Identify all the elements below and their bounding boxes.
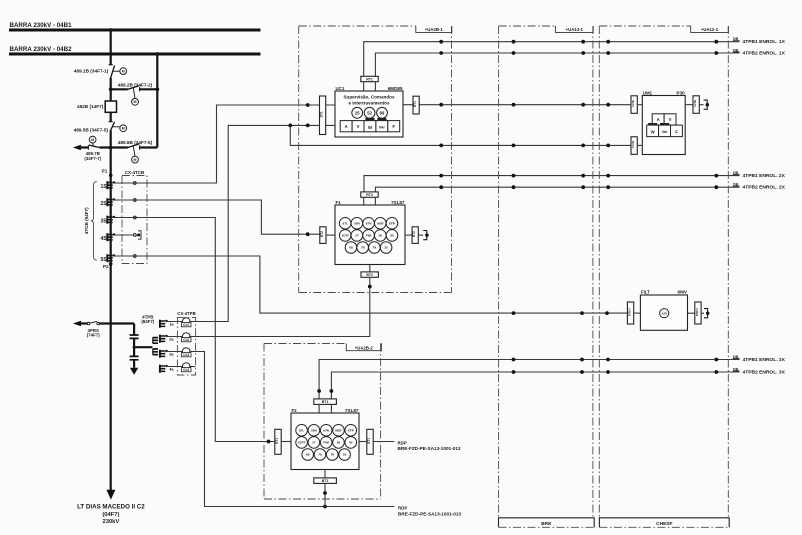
svg-text:+UA12-1: +UA12-1 [701, 27, 719, 32]
function 25 [352, 107, 363, 118]
wire voltage branch to UM1 [290, 125, 631, 145]
svg-text:(34F7-7): (34F7-7) [84, 156, 101, 161]
node bus1 tap [109, 28, 113, 32]
CT 2S [107, 198, 115, 206]
wire main feeder upper [110, 30, 112, 65]
capacitor C1 [130, 335, 139, 338]
breaker 452B (14F7) [105, 101, 116, 112]
fuse OJ4 [182, 363, 190, 371]
svg-text:7SL87: 7SL87 [391, 200, 405, 205]
svg-text:V: V [357, 124, 360, 129]
svg-text:CX-4TPB: CX-4TPB [177, 311, 195, 316]
wire [110, 130, 112, 175]
svg-text:BT2: BT2 [412, 231, 416, 237]
svg-text:M: M [134, 100, 137, 104]
svg-text:BRE-FZD-PE-SA13-1001-013: BRE-FZD-PE-SA13-1001-013 [398, 511, 461, 516]
busbar 04B1 [9, 29, 261, 32]
terminal 4S shorted spare [112, 234, 133, 236]
connector CV1B right [685, 104, 693, 106]
svg-text:2S: 2S [100, 201, 107, 207]
svg-text:85: 85 [390, 234, 394, 238]
svg-text:25: 25 [384, 246, 388, 250]
svg-text:BT1: BT1 [413, 101, 417, 107]
capacitor C2 [130, 356, 139, 359]
connector BT1 right [359, 441, 367, 443]
disconnector 489.6B (34F7-6) [139, 145, 141, 149]
svg-text:CX-4TCB: CX-4TCB [125, 170, 145, 175]
wire RT1 to ENROL 1X a [364, 42, 740, 77]
svg-text:BARRA 230kV - 04B2: BARRA 230kV - 04B2 [10, 46, 73, 53]
wire F2 top to ENROL 3X b [331, 372, 739, 399]
svg-text:P1: P1 [102, 169, 108, 174]
connector CV1B upper left [631, 96, 637, 114]
ground [130, 368, 138, 375]
termination UM1 right [704, 100, 709, 109]
svg-text:489.2B (34F7-2): 489.2B (34F7-2) [118, 83, 153, 88]
winding 2a [160, 335, 168, 343]
connector BT1 right [403, 104, 413, 106]
svg-text:CV1B: CV1B [631, 100, 635, 107]
connector BTFILT right [688, 312, 695, 314]
svg-text:3S: 3S [100, 218, 107, 224]
svg-text:+UA2B-2: +UA2B-2 [355, 345, 374, 350]
svg-text:FWI: FWI [366, 234, 372, 238]
svg-text:50N: 50N [354, 221, 360, 225]
terminal 1S [112, 182, 133, 184]
F2 functions row2 [296, 437, 308, 449]
disconnector 489.1B (34F7-1) [109, 64, 113, 66]
svg-text:SOTF: SOTF [341, 234, 349, 238]
svg-text:87L: 87L [299, 428, 304, 432]
svg-text:BTFILT: BTFILT [696, 308, 699, 317]
connector BT1 left [320, 96, 326, 135]
svg-text:50BF: 50BF [377, 221, 384, 225]
svg-text:BT1: BT1 [322, 479, 329, 483]
svg-text:68: 68 [306, 453, 310, 457]
CT 5S [107, 254, 115, 262]
wire branch 489.6B [111, 146, 158, 148]
wire RT1 to ENROL 1X b [375, 53, 739, 76]
svg-text:(74F7): (74F7) [87, 332, 100, 337]
svg-text:BT2: BT2 [320, 231, 324, 237]
disconnector 489.5B (34F7-5) [109, 121, 113, 123]
svg-text:UM1: UM1 [643, 90, 653, 95]
fuse OJ2 [182, 333, 190, 341]
svg-text:RT1: RT1 [366, 77, 373, 81]
CT 1S [107, 181, 115, 189]
svg-text:59: 59 [379, 234, 383, 238]
node bus2 tap [155, 52, 159, 56]
wire F2 bottom to RDP [324, 484, 326, 507]
wire [110, 112, 112, 121]
wire UC1 to UM1 [419, 104, 631, 106]
fuse OJ1 [182, 318, 190, 326]
svg-text:59: 59 [337, 441, 341, 445]
svg-text:6MD85: 6MD85 [388, 86, 403, 91]
meter A [652, 114, 664, 125]
cvt windings [153, 338, 158, 344]
svg-text:OJ3: OJ3 [183, 353, 189, 357]
svg-text:M: M [122, 127, 125, 131]
svg-text:52: 52 [367, 110, 372, 115]
svg-text:F: F [392, 124, 395, 129]
busbar 04B2 [9, 53, 261, 56]
svg-text:F2: F2 [292, 408, 298, 413]
svg-text:BRE-FZD-PE-SA13-1001-013: BRE-FZD-PE-SA13-1001-013 [398, 446, 461, 451]
svg-text:(04F7): (04F7) [102, 512, 119, 518]
CT 3S [107, 216, 115, 224]
disconnector 489.2B (34F7-2) [139, 87, 141, 91]
svg-text:78: 78 [318, 453, 322, 457]
svg-text:M: M [134, 158, 137, 162]
connector BT1 left [275, 429, 281, 454]
svg-text:VAr: VAr [662, 130, 669, 134]
svg-text:4TCB (94F7): 4TCB (94F7) [84, 207, 89, 234]
svg-text:CV1W: CV1W [631, 140, 635, 148]
connector BTFILT left [627, 302, 633, 324]
wire RT2 to ENROL 2X a [364, 176, 739, 192]
wire OJ3 to F2 bottom / RDP [189, 352, 394, 507]
meter F [671, 125, 683, 137]
svg-text:5S: 5S [100, 257, 107, 263]
termination FILT right [704, 309, 709, 318]
svg-text:Supervisão, Comandos: Supervisão, Comandos [343, 94, 394, 99]
svg-text:4S: 4S [100, 236, 107, 242]
winding 3a [160, 350, 168, 358]
svg-text:68: 68 [349, 246, 353, 250]
svg-text:1S: 1S [100, 184, 107, 190]
svg-text:4TPB2 ENROL. 2X: 4TPB2 ENROL. 2X [743, 185, 786, 191]
wire branch vertical right [156, 54, 158, 148]
svg-text:4TPB2 ENROL. 3X: 4TPB2 ENROL. 3X [743, 370, 786, 376]
svg-text:UC1: UC1 [336, 86, 345, 91]
svg-text:BT2: BT2 [366, 273, 373, 277]
node P1 [109, 174, 113, 178]
svg-text:A: A [657, 117, 660, 122]
F2 functions row3 [302, 449, 314, 461]
wire 1S to UC1 [112, 105, 319, 183]
svg-text:BARRA 230kV - 04B1: BARRA 230kV - 04B1 [10, 22, 73, 29]
transducer A/D [660, 309, 669, 318]
F2 functions row1 [296, 425, 308, 437]
svg-text:489.5B (34F7-5): 489.5B (34F7-5) [74, 128, 109, 133]
svg-text:BRE: BRE [541, 521, 552, 527]
CX-4TPB box [177, 317, 195, 375]
svg-text:A/D: A/D [662, 311, 668, 315]
svg-text:CHESF: CHESF [656, 521, 672, 527]
svg-text:BTFILT: BTFILT [629, 308, 632, 317]
svg-text:25: 25 [343, 453, 347, 457]
svg-text:V: V [669, 117, 672, 122]
brace 4TCB (94F7) [91, 182, 97, 261]
function 89 [377, 107, 388, 118]
svg-text:SOTF: SOTF [298, 441, 306, 445]
meter VAr [376, 121, 388, 132]
connector BT2 left [320, 227, 326, 244]
svg-text:F: F [675, 130, 678, 135]
function 52 [364, 107, 375, 118]
svg-text:RDP: RDP [398, 441, 407, 446]
svg-text:P2: P2 [103, 264, 109, 269]
svg-text:25: 25 [355, 110, 360, 115]
svg-text:489.1B (34F7-1): 489.1B (34F7-1) [74, 68, 109, 73]
svg-text:M: M [91, 138, 94, 142]
connector RT2 top [361, 192, 378, 197]
svg-text:50N: 50N [311, 428, 317, 432]
F1 functions row2 [339, 230, 351, 242]
svg-text:M: M [122, 70, 125, 74]
svg-text:230kV: 230kV [103, 519, 120, 525]
meter VAr [659, 125, 671, 137]
wire 5S to FILT [112, 256, 627, 313]
wire F2 top to ENROL 3X a [319, 360, 739, 399]
svg-text:LT DIAS MACEDO II C2: LT DIAS MACEDO II C2 [77, 503, 145, 510]
connector RT1 top [361, 76, 378, 81]
svg-text:F1: F1 [336, 200, 342, 205]
connector BT2 bottom [369, 265, 371, 272]
connector CV1W lower left [631, 137, 637, 155]
svg-text:87L: 87L [343, 221, 348, 225]
wire branch 489.2B [111, 88, 158, 90]
meter A [340, 121, 352, 132]
connector BT1 bottom [324, 470, 326, 478]
svg-text:79: 79 [331, 453, 335, 457]
svg-text:6MV: 6MV [678, 290, 688, 295]
svg-text:CV1B: CV1B [693, 100, 697, 107]
svg-text:FWI: FWI [323, 441, 329, 445]
svg-text:67N: 67N [366, 221, 372, 225]
svg-text:78: 78 [361, 246, 365, 250]
svg-text:FILT: FILT [641, 290, 650, 295]
connector BT2 right [405, 234, 412, 236]
svg-text:27: 27 [312, 441, 316, 445]
svg-text:(84F7): (84F7) [141, 319, 154, 324]
svg-text:4TPB1 ENROL. 3X: 4TPB1 ENROL. 3X [743, 357, 786, 363]
svg-text:BT1: BT1 [367, 438, 371, 444]
F1 functions row1 [339, 218, 351, 230]
wire OJ2 to F1 bottom [189, 278, 369, 337]
svg-text:e Intertravamentos: e Intertravamentos [348, 101, 390, 106]
svg-text:OJ4: OJ4 [183, 368, 189, 372]
terminal 5S [112, 255, 133, 257]
svg-text:P30: P30 [677, 90, 686, 95]
terminal 2S [112, 199, 133, 201]
svg-text:85: 85 [349, 441, 353, 445]
termination F1 right [423, 231, 428, 240]
meter V [664, 114, 676, 125]
fuse OJ3 [182, 348, 190, 356]
wire OJ4 stub [189, 366, 195, 368]
svg-text:489.6B (34F7-6): 489.6B (34F7-6) [118, 140, 153, 145]
svg-text:BT1: BT1 [275, 438, 279, 444]
svg-text:RDP: RDP [398, 506, 407, 511]
winding 1a [160, 320, 168, 328]
winding 4a [160, 365, 168, 373]
CT 4S [107, 233, 115, 241]
node cvt tap [133, 346, 136, 349]
F1 functions row3 [345, 242, 357, 254]
svg-text:EFP: EFP [389, 221, 395, 225]
svg-text:OJ2: OJ2 [183, 338, 189, 342]
wire main feeder lower [110, 264, 112, 490]
meter W [364, 121, 376, 132]
terminal 3S [112, 217, 133, 219]
svg-text:4TPB1 ENROL. 1X: 4TPB1 ENROL. 1X [743, 39, 786, 45]
svg-text:BT1: BT1 [322, 400, 329, 404]
meter F [388, 121, 400, 132]
line arrow LT DIAS MACEDO II C2 [106, 490, 115, 500]
svg-text:+UA13-1: +UA13-1 [566, 27, 584, 32]
meter V [352, 121, 364, 132]
svg-text:OJ1: OJ1 [183, 323, 189, 327]
svg-text:4TPB1 ENROL. 2X: 4TPB1 ENROL. 2X [743, 173, 786, 179]
wire 2S to F1 [112, 200, 319, 234]
svg-text:+UA2B-1: +UA2B-1 [425, 27, 444, 32]
svg-text:89: 89 [380, 110, 385, 115]
svg-text:27: 27 [355, 234, 359, 238]
svg-text:7SL87: 7SL87 [345, 408, 359, 413]
wire OJ1 to UC1 [189, 125, 319, 321]
svg-text:67N: 67N [323, 428, 329, 432]
svg-text:BT1: BT1 [320, 111, 324, 117]
svg-text:RT2: RT2 [366, 193, 373, 197]
svg-text:50BF: 50BF [335, 428, 342, 432]
earthing switch 489.7B (34F7-7) [73, 145, 81, 150]
svg-text:452B (14F7): 452B (14F7) [77, 104, 104, 109]
connector BT1 top [314, 399, 337, 405]
meter W [647, 125, 659, 137]
svg-text:EFP: EFP [348, 428, 354, 432]
svg-text:79: 79 [373, 246, 377, 250]
node P2 [109, 262, 113, 266]
svg-text:A: A [345, 124, 348, 129]
wire main through CT section [110, 175, 112, 264]
wire 3S to F2 [112, 218, 274, 442]
wire [110, 78, 112, 101]
svg-text:VAr: VAr [379, 126, 386, 130]
svg-text:4TPB2 ENROL. 1X: 4TPB2 ENROL. 1X [743, 51, 786, 57]
wire RT2 to ENROL 2X b [375, 187, 739, 192]
wire cvt branch [133, 324, 135, 336]
